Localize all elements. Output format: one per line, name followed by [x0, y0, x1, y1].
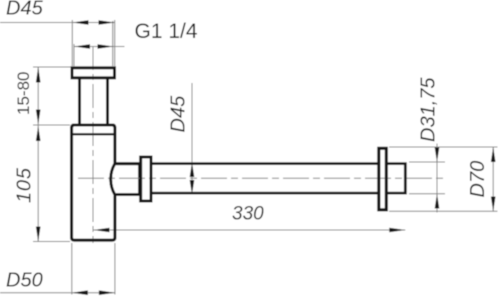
svg-text:15-80: 15-80	[14, 72, 33, 115]
svg-text:D70: D70	[467, 161, 489, 198]
svg-text:D50: D50	[6, 270, 43, 292]
svg-text:D31,75: D31,75	[418, 77, 440, 142]
svg-text:D45: D45	[168, 95, 190, 133]
svg-text:105: 105	[14, 167, 36, 203]
svg-text:D45: D45	[6, 0, 44, 20]
svg-text:G1 1/4: G1 1/4	[135, 20, 198, 43]
svg-text:330: 330	[232, 204, 264, 225]
